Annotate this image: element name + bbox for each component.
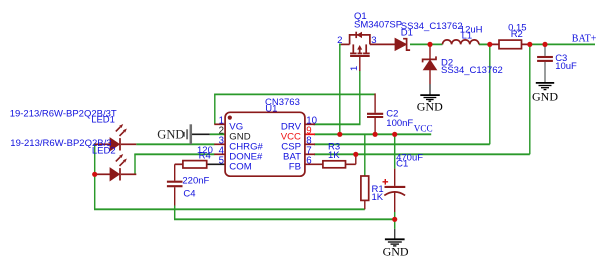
- wire CSP row: [314, 143, 490, 145]
- resistor R4 120: [175, 161, 207, 168]
- svg-text:SS34_C13762: SS34_C13762: [441, 65, 503, 76]
- svg-text:1: 1: [349, 66, 360, 71]
- junction dot node L1-CSP junction: [487, 42, 492, 47]
- LED2: [95, 154, 137, 181]
- svg-text:GND: GND: [383, 244, 409, 258]
- transistor Q1 SM3407SP PMOS: [341, 32, 395, 71]
- svg-text:SM3407SP: SM3407SP: [354, 20, 402, 31]
- diode D2 SS34_C13762: [423, 44, 437, 94]
- Q1 channel arrow: [357, 45, 362, 50]
- junction dot node LED anode junction: [92, 172, 97, 177]
- svg-text:BAT+: BAT+: [572, 34, 597, 45]
- wire switch node: D1 cathode to L1: [410, 43, 443, 45]
- svg-text:2: 2: [337, 35, 342, 46]
- U1 pin numbers: [219, 115, 318, 166]
- wire BAT row: [314, 153, 530, 155]
- U1 pin names: [229, 122, 301, 173]
- resistor R1 1K vertical: [361, 176, 369, 209]
- wire R2 to BAT+: [530, 43, 595, 45]
- wire VG to C2 top: [214, 94, 216, 124]
- power port GND bar at pin 2: [184, 124, 191, 144]
- inductor L1 12uH: [443, 40, 479, 45]
- ground symbol at C3: [536, 83, 554, 90]
- svg-text:R2: R2: [511, 29, 523, 40]
- wire GND bar to pin 2: [192, 133, 210, 135]
- svg-text:GND: GND: [417, 100, 443, 114]
- svg-text:3: 3: [371, 35, 376, 46]
- capacitor C3 10uF: [537, 44, 553, 82]
- capacitor C1 470uF electrolytic: [383, 169, 406, 212]
- svg-text:C1: C1: [396, 159, 408, 170]
- wire COM to R4: [207, 163, 225, 165]
- op-amp style IC U1 CN3763 body: [225, 112, 305, 176]
- wire DRV to Q1 gate: [314, 123, 361, 125]
- svg-text:220nF: 220nF: [182, 176, 209, 187]
- svg-text:5: 5: [219, 155, 224, 166]
- wire VCC to C1 top: [394, 134, 396, 168]
- wire LED2 cathode to DONE#: [134, 154, 136, 174]
- svg-text:1K: 1K: [372, 192, 384, 203]
- junction dot node D2 switch junction: [427, 42, 432, 47]
- ground symbol bottom: [385, 229, 405, 246]
- junction dot node VCC-C1 junction: [392, 132, 397, 137]
- resistor R2 0.15: [492, 40, 530, 49]
- svg-text:VCC: VCC: [414, 124, 433, 134]
- wire CSP sense vertical: [489, 44, 491, 144]
- junction dot node R2-BAT junction: [527, 42, 532, 47]
- capacitor C4 220nF: [167, 164, 183, 205]
- wire VCC input: top rail corner down to VCC row: [339, 43, 341, 45]
- svg-text:LED2: LED2: [92, 146, 116, 157]
- svg-text:100nF: 100nF: [386, 118, 413, 129]
- wire BAT sense vertical: [529, 44, 531, 154]
- wire rail C4 bottom to GND node: [174, 206, 176, 220]
- junction dot node GND junction: [392, 217, 397, 222]
- wire LED1 cathode to CHRG#: [136, 143, 214, 145]
- wire L1 to R2: [479, 43, 492, 45]
- junction dot node VCC-C2 junction: [373, 132, 378, 137]
- svg-text:GND: GND: [532, 89, 558, 103]
- diode D1 SS34_C13762: [395, 39, 410, 51]
- svg-text:10uF: 10uF: [555, 61, 577, 72]
- Q1 body diode arrow: [357, 32, 363, 38]
- wire rail LED anodes to R1 bottom: [94, 208, 365, 210]
- svg-text:COM: COM: [229, 162, 251, 173]
- wire VCC to R1 top: [364, 134, 366, 176]
- svg-text:FB: FB: [289, 162, 301, 173]
- svg-text:GND: GND: [157, 128, 184, 142]
- wire VCC row: [314, 133, 431, 135]
- svg-text:R4: R4: [199, 151, 211, 162]
- junction dot node BAT-R3 junction: [353, 152, 358, 157]
- IC U1 pin stubs: [214, 124, 315, 154]
- wire LED anode rail vertical: [94, 143, 96, 209]
- svg-text:1K: 1K: [328, 150, 340, 161]
- svg-text:U1: U1: [265, 104, 277, 115]
- LED1: [95, 124, 137, 151]
- svg-text:C4: C4: [183, 189, 195, 200]
- junction dot node C3 junction: [542, 42, 547, 47]
- ground symbol at D2: [420, 95, 440, 101]
- resistor R3 1K at FB: [305, 154, 356, 168]
- junction dot node VCC-Q1 junction: [337, 132, 342, 137]
- svg-text:L1: L1: [462, 30, 473, 41]
- svg-text:LED1: LED1: [91, 115, 115, 126]
- capacitor C2 100nF: [367, 93, 383, 134]
- pin 9 stub (VCC net, red): [305, 133, 315, 135]
- svg-text:D1: D1: [401, 28, 413, 39]
